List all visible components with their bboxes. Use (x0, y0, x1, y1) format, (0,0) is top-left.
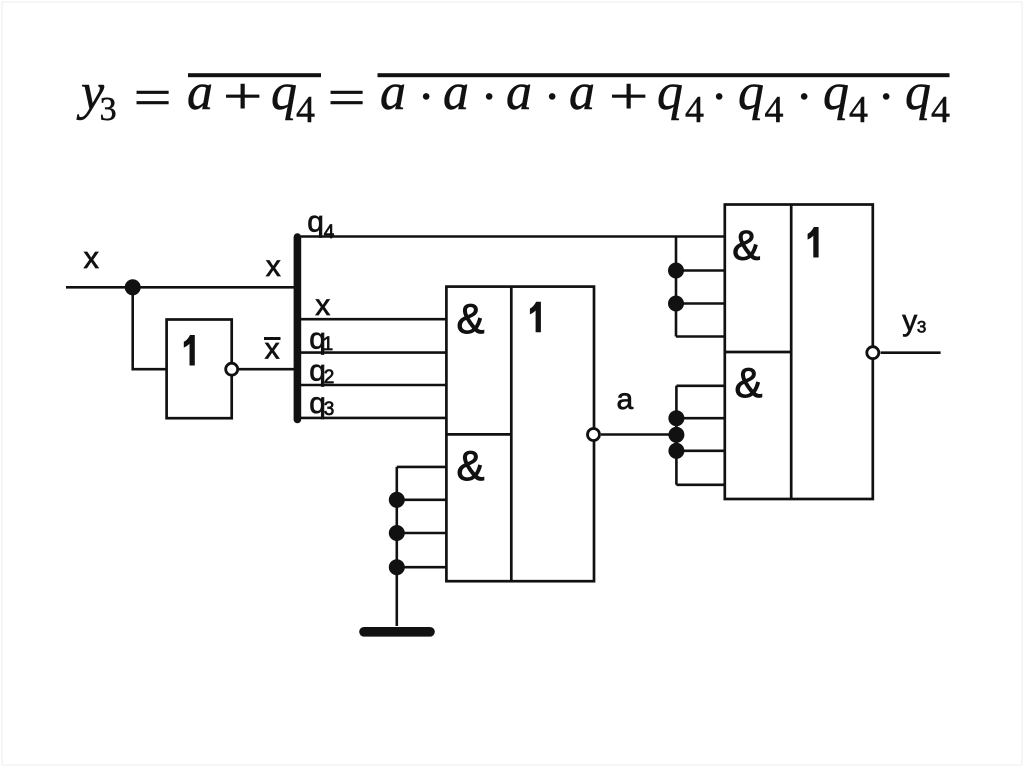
bubble y3 output (867, 347, 879, 359)
svg-text:x: x (315, 289, 330, 322)
svg-text:q: q (738, 64, 764, 121)
ground (364, 627, 430, 637)
wire q3 to gate (301, 417, 446, 420)
svg-text:4: 4 (685, 89, 704, 131)
junction dot t3 (668, 296, 684, 312)
wire stub t2 (676, 269, 725, 272)
svg-text:a: a (569, 64, 595, 121)
label 1 NOT (184, 335, 195, 366)
formula y3 (76, 64, 950, 131)
wire branch bottom-left vertical (395, 467, 398, 626)
svg-text:a: a (187, 64, 213, 121)
overline bar 1 (188, 73, 321, 77)
wire stub t4 (676, 335, 725, 338)
svg-text:&: & (735, 359, 763, 406)
middle gate DD1 box (446, 287, 594, 582)
svg-text:&: & (457, 295, 485, 342)
wire q2 to gate (301, 384, 446, 387)
label 1 right (808, 227, 819, 258)
xbar overline (264, 337, 281, 340)
wire stub a2 (676, 417, 724, 420)
wire junction to NOT gate (133, 287, 167, 369)
svg-text:&: & (457, 442, 485, 489)
wire stub b3 (397, 532, 447, 535)
wire NOT output to bus (239, 368, 297, 371)
wire q4 (301, 235, 725, 238)
svg-text:y: y (902, 305, 917, 338)
wire y3 output (881, 351, 941, 354)
svg-text:q: q (657, 64, 683, 121)
svg-text:4: 4 (765, 89, 784, 131)
middle gate vertical divider (510, 287, 513, 582)
svg-text:3: 3 (100, 91, 117, 128)
svg-text:3: 3 (324, 399, 335, 420)
junction dot input x (125, 279, 141, 295)
svg-text:4: 4 (324, 222, 335, 243)
svg-text:a: a (617, 383, 634, 416)
svg-text:4: 4 (296, 89, 315, 131)
svg-text:a: a (506, 64, 532, 121)
overline bar 2 (378, 73, 950, 77)
bus bar (294, 237, 302, 420)
label 1 middle (530, 302, 541, 333)
svg-text:=: = (328, 69, 366, 127)
wire stub t3 (676, 302, 725, 305)
svg-text:a: a (443, 64, 469, 121)
NOT gate box U1 (167, 320, 232, 419)
wire stub b4 (397, 566, 447, 569)
junction dot t2 (668, 263, 684, 279)
svg-text:1: 1 (323, 334, 334, 355)
wire stub a1 (676, 384, 724, 387)
svg-text:4: 4 (931, 89, 950, 131)
junction dot a3 (668, 443, 684, 459)
wire stub a3 (676, 449, 724, 452)
junction dot b4 (389, 559, 405, 575)
junction dot a mid (668, 427, 684, 443)
svg-text:x: x (84, 240, 100, 275)
svg-text:a: a (380, 64, 406, 121)
bubble a output (588, 429, 600, 441)
bubble NOT output (226, 363, 238, 375)
svg-text:2: 2 (324, 367, 335, 388)
wire q1 to gate (301, 351, 446, 354)
middle gate horizontal divider (446, 433, 511, 436)
wire branch a vertical (675, 386, 678, 485)
junction dot b2 (389, 492, 405, 508)
wire stub b1 (397, 466, 447, 469)
right gate vertical divider (790, 205, 793, 500)
junction dot b3 (389, 525, 405, 541)
svg-text:q: q (905, 64, 931, 121)
svg-text:3: 3 (917, 318, 926, 337)
svg-text:q: q (271, 64, 297, 121)
svg-text:&: & (732, 221, 760, 268)
svg-text:x: x (266, 250, 281, 283)
right gate DD2 box (725, 205, 873, 500)
wire a (601, 433, 676, 436)
wire input x (66, 286, 297, 289)
svg-text:4: 4 (849, 89, 868, 131)
svg-text:q: q (307, 206, 324, 239)
svg-text:=: = (134, 69, 172, 127)
right gate horizontal divider (725, 351, 791, 354)
wire stub b2 (397, 498, 447, 501)
wire stub a4 (676, 483, 724, 486)
wire branch q4 vertical (675, 237, 678, 337)
junction dot a2 (668, 410, 684, 426)
wire x to gate (301, 318, 446, 321)
svg-text:q: q (823, 64, 849, 121)
